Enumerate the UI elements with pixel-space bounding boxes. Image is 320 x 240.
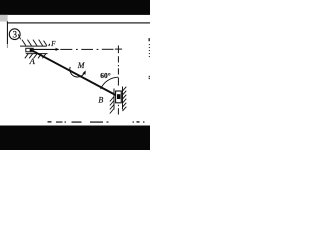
svg-text:B: B xyxy=(98,95,103,104)
svg-text:M: M xyxy=(77,61,86,70)
svg-text:3: 3 xyxy=(12,29,17,39)
svg-text:A: A xyxy=(29,56,36,66)
svg-text:F: F xyxy=(50,41,56,48)
svg-text:60°: 60° xyxy=(100,71,110,80)
